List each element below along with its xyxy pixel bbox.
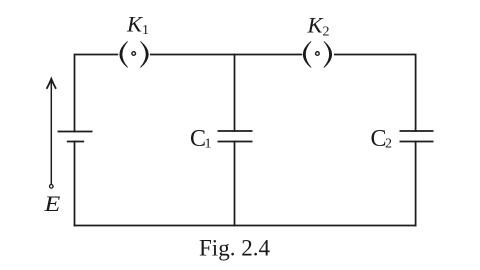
svg-text:E: E: [43, 191, 61, 216]
current arrow (EMF direction arrow with node circle): [47, 79, 56, 188]
switch K2 (parentheses and contact dot): [303, 41, 332, 67]
capacitor C1 (plates): [218, 131, 253, 142]
wire middle-top (top rail junction down to C1): [234, 55, 236, 132]
wire right-bottom (C2 down to bottom rail): [415, 142, 417, 226]
switch K1 (parentheses and contact dot): [119, 41, 148, 67]
wire top-right (K2 to right branch top): [335, 55, 416, 132]
wire top-left (battery top to switch K1): [75, 55, 118, 132]
wire bottom (bottom rail): [75, 225, 416, 227]
battery E (long and short plates): [58, 132, 93, 142]
capacitor C2 (plates): [400, 131, 434, 142]
wire left-bottom (battery bottom to bottom-left corner): [74, 142, 76, 226]
svg-text:Fig. 2.4: Fig. 2.4: [199, 235, 270, 260]
wire middle-bottom (C1 down to bottom rail): [234, 142, 236, 226]
wire top-middle (K1 to K2, through node at middle branch): [151, 54, 301, 56]
